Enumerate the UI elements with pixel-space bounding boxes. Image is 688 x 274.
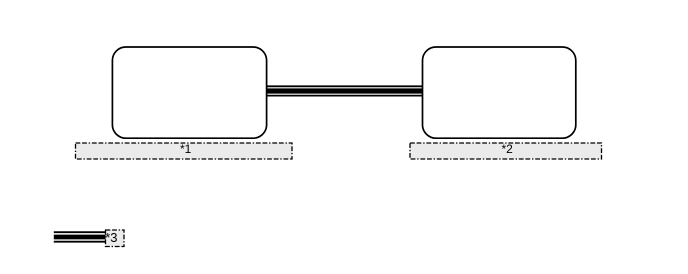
- label box *2 (dashed callout under right connector): [410, 143, 602, 159]
- legend wire bottom thin line: [54, 241, 106, 243]
- wire W1 (shielded cable between connectors): [267, 86, 423, 95]
- svg-text:*3: *3: [105, 230, 117, 245]
- svg-text:*2: *2: [502, 142, 514, 156]
- legend wire top thin line: [54, 231, 106, 233]
- legend wire W3 (shielded cable sample): [54, 232, 106, 242]
- wire W1 bottom thin line: [267, 95, 423, 97]
- legend wire thick core line: [54, 235, 106, 240]
- label box *3 (dashed legend box): [106, 230, 125, 247]
- svg-text:*1: *1: [180, 142, 192, 156]
- wire W1 thick core line: [267, 88, 423, 93]
- wire W1 top thin line: [267, 85, 423, 87]
- label box *1 (dashed callout under left connector): [76, 143, 293, 159]
- connector block 1 (left rounded rectangle): [112, 47, 266, 138]
- connector block 2 (right rounded rectangle): [423, 47, 576, 138]
